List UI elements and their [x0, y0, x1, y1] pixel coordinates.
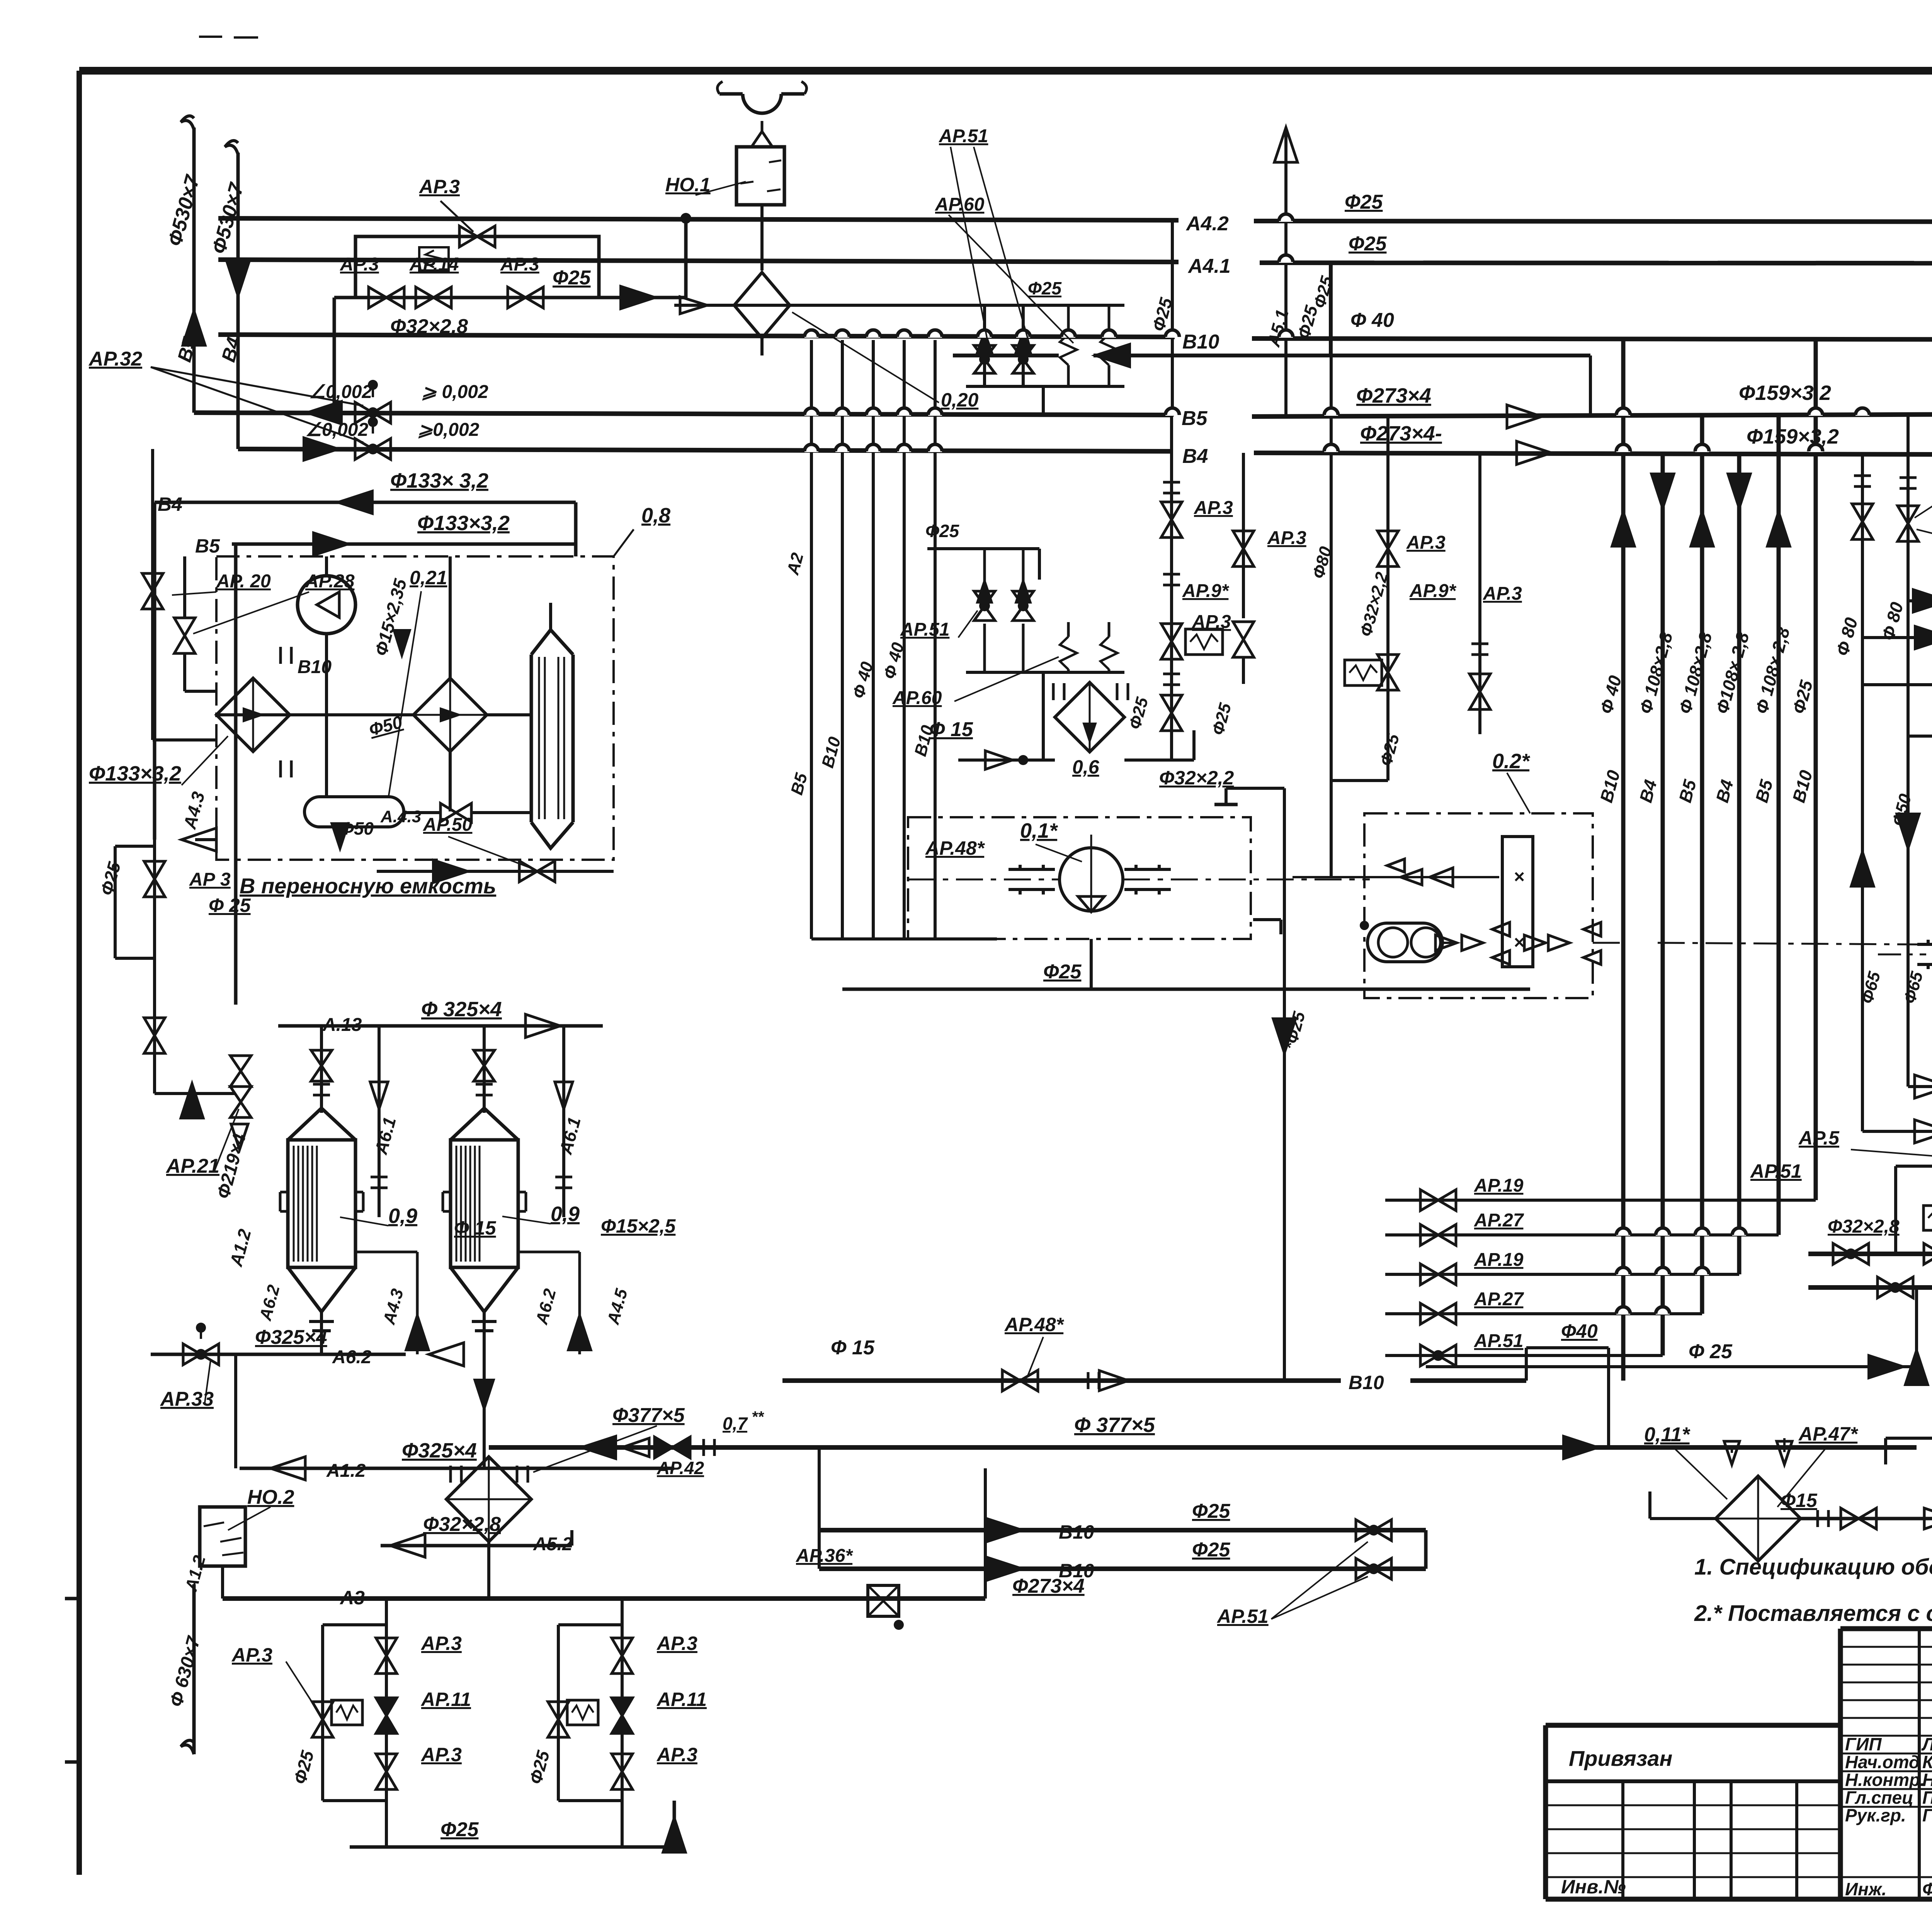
svg-text:Ф273×4: Ф273×4 [1356, 384, 1431, 407]
riser F630x7 [192, 1584, 196, 1754]
svg-text:Ф32×2,2: Ф32×2,2 [1159, 767, 1234, 789]
svg-text:АР.19: АР.19 [1474, 1175, 1524, 1196]
svg-text:Ф 25: Ф 25 [209, 895, 251, 916]
adsorber column 0.21 vessel [530, 655, 533, 822]
atm vent symbol [719, 92, 804, 96]
svg-text:Ф377×5: Ф377×5 [612, 1404, 685, 1427]
line A3 [221, 1566, 224, 1599]
svg-text:Ф325×4: Ф325×4 [402, 1439, 477, 1462]
svg-text:∠0,002: ∠0,002 [305, 420, 368, 440]
hx 0.11 [1716, 1476, 1801, 1561]
svg-text:АР.14: АР.14 [409, 254, 459, 275]
unit 0.2 boundary [1364, 813, 1593, 998]
svg-text:АР.21: АР.21 [165, 1155, 219, 1177]
PP manifold lower AR.51 AR.60 [927, 547, 1039, 550]
line Ф15 to 0.6 [958, 759, 1055, 762]
svg-text:Ф25: Ф25 [553, 267, 591, 289]
valve column AR.3 no1 [1170, 417, 1173, 760]
svg-text:0,6: 0,6 [1072, 756, 1100, 778]
svg-text:АР.3: АР.3 [420, 1744, 462, 1765]
svg-text:АР.42: АР.42 [656, 1458, 704, 1478]
svg-text:Григорьян: Григорьян [1922, 1805, 1932, 1825]
small valve on oval line [440, 803, 456, 822]
row valve АР.27 [1385, 1233, 1779, 1236]
second relief column F32x2.2 [1386, 417, 1389, 781]
svg-text:АР.9*: АР.9* [1409, 581, 1457, 601]
svg-text:АР.3: АР.3 [656, 1744, 697, 1765]
svg-text:Ф133× 3,2: Ф133× 3,2 [390, 469, 488, 492]
loop AR.5 [1896, 1165, 1932, 1168]
row valve АР.19 [1385, 1199, 1816, 1202]
left bundle verticals [810, 340, 813, 939]
svg-text:АР.9*: АР.9* [1182, 581, 1230, 601]
svg-text:АР.3: АР.3 [1194, 498, 1233, 518]
vessel 2 body [451, 1108, 518, 1140]
title block outer [1840, 1626, 1932, 1631]
svg-text:Ф32×2,8: Ф32×2,8 [390, 315, 468, 338]
svg-text:АР.48*: АР.48* [1004, 1314, 1065, 1335]
upper branch cones [1293, 876, 1499, 878]
svg-text:Ф25: Ф25 [1349, 233, 1387, 255]
left frame tick marks [65, 1597, 82, 1600]
vertical line В10 x4201 [1621, 340, 1626, 1381]
svg-text:Ф 15: Ф 15 [454, 1217, 497, 1239]
svg-text:АР 3: АР 3 [189, 869, 231, 890]
svg-text:АР.51: АР.51 [1474, 1331, 1523, 1351]
svg-text:Ф325×4: Ф325×4 [255, 1326, 327, 1349]
bus B5 [194, 413, 1173, 415]
heat exchanger HX2 [413, 678, 487, 752]
valve AR.36 [868, 1585, 899, 1616]
filter NO.1 [736, 147, 784, 205]
svg-text:Ф25: Ф25 [1192, 1539, 1231, 1561]
riser phi25 right [1330, 263, 1333, 355]
valve AR.14 with actuator [416, 287, 434, 308]
vessel 1 lugs [280, 1191, 288, 1194]
svg-text:Ф 40: Ф 40 [1350, 309, 1394, 332]
vertical line В10 x4699 [1814, 340, 1818, 1200]
svg-text:Ф 325×4: Ф 325×4 [421, 998, 502, 1021]
riser F530x7 B4 [236, 153, 240, 449]
feed risers [1915, 1287, 1918, 1367]
suction line F25 [842, 988, 1530, 991]
left valves AR.20 AR.28 [142, 573, 163, 591]
shaft brackets [1019, 865, 1022, 869]
svg-text:В4: В4 [158, 493, 182, 515]
compressor circle [1060, 848, 1123, 911]
svg-text:Ф 15: Ф 15 [831, 1337, 875, 1359]
svg-text:А.4.3: А.4.3 [380, 807, 421, 826]
svg-text:АР.3: АР.3 [420, 1633, 462, 1654]
svg-text:АР.11: АР.11 [420, 1689, 471, 1710]
svg-text:Ф273×4-: Ф273×4- [1360, 422, 1442, 445]
line A5.2 F32x2.8 [381, 1544, 572, 1548]
svg-text:А1.2: А1.2 [326, 1461, 366, 1481]
svg-text:⩾0,002: ⩾0,002 [417, 420, 480, 440]
svg-text:АР. 20: АР. 20 [216, 571, 271, 592]
svg-text:**: ** [752, 1408, 765, 1425]
internal pipes [325, 634, 328, 797]
svg-text:В10: В10 [1059, 1521, 1094, 1543]
PP manifold upper [674, 304, 1124, 307]
unit 0.1 boundary [908, 817, 1251, 939]
svg-text:В переносную емкость: В переносную емкость [240, 874, 496, 898]
svg-text:0.2*: 0.2* [1492, 750, 1531, 773]
svg-text:В10: В10 [1182, 331, 1219, 353]
crossing hooks [804, 331, 818, 338]
svg-text:АР.32: АР.32 [88, 348, 142, 370]
svg-text:Рук.гр.: Рук.гр. [1845, 1805, 1906, 1825]
svg-text:А4.1: А4.1 [1187, 255, 1231, 277]
svg-text:Новицкая: Новицкая [1922, 1770, 1932, 1790]
riser A5.1 [1284, 128, 1287, 417]
svg-text:Преснов: Преснов [1922, 1787, 1932, 1808]
line B5 F133x3.2 [232, 543, 575, 546]
svg-text:2.* Поставляется с оборудо: 2.* Поставляется с оборудованием [1694, 1601, 1932, 1626]
svg-text:А.13: А.13 [322, 1015, 362, 1035]
svg-text:В5: В5 [195, 535, 220, 557]
svg-text:В10: В10 [1059, 1560, 1094, 1582]
svg-text:АР.51: АР.51 [900, 619, 949, 640]
row T5 valves [1878, 1277, 1895, 1298]
valve tree group2 [621, 1599, 624, 1801]
top-left dashes [199, 36, 222, 38]
svg-text:АР.60: АР.60 [935, 194, 985, 215]
svg-text:Ф25: Ф25 [925, 521, 959, 541]
riser from A4.2 to filter 0.20 [684, 218, 687, 260]
svg-text:АР.51: АР.51 [1750, 1160, 1802, 1182]
svg-text:В10: В10 [1349, 1372, 1384, 1393]
valve tree group1 [385, 1599, 388, 1801]
svg-text:0,1*: 0,1* [1020, 819, 1058, 842]
svg-text:×: × [1514, 867, 1525, 887]
svg-text:А6.2: А6.2 [332, 1347, 372, 1367]
svg-text:АР.27: АР.27 [1474, 1289, 1524, 1310]
valve on vessel2 top [474, 1050, 495, 1066]
motor brackets [1927, 940, 1930, 944]
unit 0.8 boundary [216, 556, 614, 860]
row valve АР.19 [1385, 1273, 1739, 1276]
line AR.33 A6.2 [151, 1353, 406, 1356]
hx 0.7 [446, 1457, 531, 1542]
stub near 0.1 box right [1253, 918, 1281, 921]
svg-text:АР.51: АР.51 [1216, 1605, 1269, 1627]
svg-text:Ф32×2,8: Ф32×2,8 [1828, 1216, 1900, 1237]
svg-text:ГИП: ГИП [1845, 1734, 1882, 1754]
svg-text:0,7: 0,7 [723, 1413, 748, 1434]
flow arrow to phi25 [620, 286, 657, 310]
dryer tower rect [1502, 837, 1533, 967]
line B10 rect bottom2 [819, 1566, 1426, 1571]
line F40 jog [1525, 1348, 1528, 1381]
branch B5 [1862, 683, 1932, 686]
arrow into left [182, 828, 216, 851]
svg-text:АР.3: АР.3 [500, 254, 539, 275]
heat exchanger HX1 [216, 678, 290, 752]
valve AR.32 pair row2 [355, 439, 373, 459]
line F40 below B10 [953, 354, 1059, 357]
line T5 [1808, 1285, 1932, 1290]
svg-text:АР.5: АР.5 [1798, 1127, 1840, 1149]
svg-text:Ф133×3,2: Ф133×3,2 [417, 512, 510, 535]
riser F530x7 B5 [192, 128, 196, 413]
border frame top [79, 67, 1932, 75]
border frame left [77, 71, 82, 1875]
svg-text:Ф 25: Ф 25 [1689, 1340, 1733, 1363]
dryer drum stadium [1367, 923, 1442, 962]
filter NO.2 [200, 1507, 245, 1566]
bus A4.2 [218, 218, 1179, 220]
line B4 F133x3.2 [155, 501, 576, 504]
svg-text:А5.2: А5.2 [533, 1534, 573, 1554]
vessel side pipes A6.1 [378, 1026, 381, 1217]
svg-text:А3: А3 [339, 1587, 365, 1609]
svg-text:Федорова: Федорова [1922, 1879, 1932, 1899]
bus B4 [238, 449, 1173, 451]
0.6 filter diamond [1055, 682, 1124, 752]
valve AR.50 drain [377, 870, 614, 873]
bypass loop top line [355, 236, 599, 298]
row T6 valves [1833, 1243, 1851, 1264]
svg-text:Ф25: Ф25 [1028, 278, 1062, 298]
svg-text:Ф159×3,2: Ф159×3,2 [1747, 425, 1839, 448]
line A.13 top [278, 1024, 603, 1028]
svg-text:Ф 377×5: Ф 377×5 [1074, 1413, 1155, 1437]
svg-text:АР.3: АР.3 [656, 1633, 697, 1654]
svg-text:0,11*: 0,11* [1644, 1423, 1690, 1446]
centerline [908, 879, 1060, 881]
oval separator [304, 797, 404, 827]
svg-text:Нач.отд: Нач.отд [1845, 1752, 1920, 1772]
svg-text:Ф133×3,2: Ф133×3,2 [89, 762, 181, 785]
svg-text:АР.47*: АР.47* [1798, 1423, 1859, 1445]
branch B10 top [1908, 599, 1932, 602]
svg-text:⩾ 0,002: ⩾ 0,002 [421, 382, 488, 402]
svg-text:Гл.спец: Гл.спец [1845, 1787, 1913, 1808]
svg-text:Инж.: Инж. [1845, 1879, 1887, 1899]
svg-text:0,8: 0,8 [641, 504, 670, 527]
valve AR.3 right [508, 287, 526, 308]
lower left pipes [115, 957, 155, 960]
branch B10 second [1862, 636, 1932, 639]
connection to 0.2 box [1331, 779, 1388, 782]
pump circle [298, 576, 355, 634]
centerline across dryer [1369, 942, 1371, 944]
valve column AR.3 no2 [1242, 453, 1245, 618]
svg-text:АР.11: АР.11 [656, 1689, 707, 1710]
centerline cones [1435, 935, 1457, 951]
line T6 [1808, 1252, 1932, 1256]
svg-text:АР.3: АР.3 [1483, 583, 1522, 604]
signature table [1840, 1646, 1932, 1648]
vertical line В4 x4501 [1737, 453, 1742, 1274]
vertical line В5 x4603 [1777, 417, 1781, 1235]
svg-text:АР.19: АР.19 [1474, 1250, 1524, 1270]
svg-text:АР.28: АР.28 [305, 571, 355, 592]
svg-text:Ф25: Ф25 [440, 1818, 479, 1841]
vessel 1 body [288, 1090, 321, 1140]
valve AR.3 left mid [144, 861, 165, 879]
svg-text:0,20: 0,20 [941, 389, 979, 411]
vertical line В5 x4405 [1700, 417, 1704, 1314]
filter 0.20 diamond [760, 218, 764, 270]
wire to filter riser [649, 296, 686, 299]
row valve АР.27 [1385, 1312, 1702, 1315]
valve AR.3 left [369, 287, 386, 308]
svg-text:АР.3: АР.3 [1267, 528, 1306, 548]
svg-text:НО.2: НО.2 [247, 1486, 294, 1509]
line B10 rect bottom1 [819, 1528, 1426, 1532]
line F377x5 [489, 1445, 1917, 1450]
svg-text:Ф25: Ф25 [1345, 191, 1383, 213]
svg-text:Коган: Коган [1922, 1752, 1932, 1772]
svg-text:В5: В5 [1182, 407, 1208, 430]
svg-text:Н.контр.: Н.контр. [1845, 1770, 1925, 1790]
line F15 AR.48 B10 [782, 1378, 1341, 1383]
svg-text:Ф25: Ф25 [1192, 1500, 1231, 1522]
svg-text:0,9: 0,9 [388, 1204, 417, 1228]
vertical line В4 x4303 [1661, 453, 1665, 1355]
svg-text:Леонов: Леонов [1921, 1734, 1932, 1754]
svg-text:АР.27: АР.27 [1474, 1210, 1524, 1231]
svg-text:АР.3: АР.3 [1406, 532, 1446, 553]
vessel 2 lugs [443, 1191, 451, 1194]
valves AR.21 [230, 1056, 251, 1071]
svg-text:АР.3: АР.3 [231, 1644, 272, 1666]
svg-text:Ф40: Ф40 [1561, 1320, 1598, 1342]
line F15 F40 bottom [1801, 1517, 1932, 1520]
svg-text:АР.3: АР.3 [340, 254, 379, 275]
svg-text:0,21: 0,21 [410, 567, 447, 588]
svg-text:АР.50: АР.50 [423, 815, 473, 835]
svg-text:АР.36*: АР.36* [796, 1546, 853, 1566]
svg-text:∠0,002: ∠0,002 [309, 382, 372, 402]
main reduction line [334, 296, 649, 299]
svg-text:Ф15: Ф15 [1781, 1490, 1818, 1511]
line F25 mid [1426, 1365, 1917, 1368]
branch B4 [1908, 735, 1932, 738]
vertical wire x3324 [1226, 787, 1284, 790]
svg-text:Инв.№: Инв.№ [1561, 1876, 1626, 1898]
svg-text:1. Спецификацию оборудования и: 1. Спецификацию оборудования и арматуры … [1694, 1554, 1932, 1580]
svg-text:Ф25: Ф25 [1043, 961, 1082, 983]
centerline motor [1878, 954, 1926, 956]
column AR.26 left [1861, 453, 1864, 939]
valve AR.3 bypass [459, 226, 477, 247]
valve AR.32 pair row1 [355, 402, 373, 423]
row valve АР.51 [1385, 1354, 1663, 1357]
riser phi25 between buses [1171, 218, 1174, 417]
bottom collector F25 [350, 1845, 674, 1849]
line A1.2 F325x4 [240, 1467, 674, 1470]
privyazan table [1546, 1723, 1840, 1728]
connection of A3 line up [984, 1468, 987, 1599]
svg-text:АР.51: АР.51 [939, 126, 988, 146]
svg-text:Привязан: Привязан [1569, 1746, 1672, 1770]
svg-text:АР.3: АР.3 [418, 176, 460, 197]
column AR.26 right [1906, 417, 1910, 939]
svg-text:АР.3: АР.3 [1192, 612, 1231, 632]
svg-text:В4: В4 [1182, 445, 1208, 468]
valve on vessel1 top [311, 1050, 332, 1066]
bus B10 [218, 335, 1175, 337]
svg-text:А4.2: А4.2 [1185, 213, 1229, 235]
second relief column right [1478, 453, 1481, 734]
bus A4.1 [218, 260, 1179, 262]
svg-text:Ф15×2,5: Ф15×2,5 [601, 1215, 676, 1237]
